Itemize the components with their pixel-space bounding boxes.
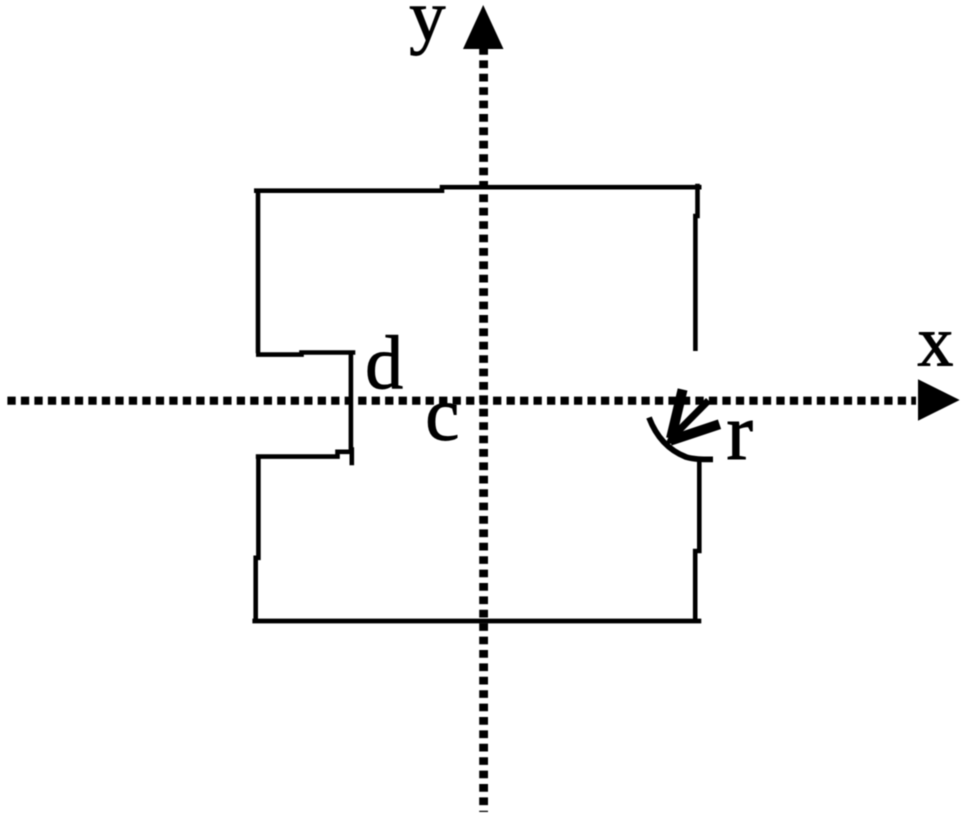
x-axis dashed line [7, 397, 916, 405]
notch vertical [349, 352, 354, 465]
svg-text:c: c [425, 370, 459, 456]
r-arrow shaft [677, 401, 709, 433]
square outline: right edge upper [695, 184, 697, 351]
arc of radius r [649, 418, 713, 460]
square outline: bottom edge [252, 619, 701, 624]
svg-text:d: d [365, 322, 403, 406]
svg-text:r: r [726, 389, 753, 477]
notch bottom horizontal [256, 452, 353, 457]
svg-text:y: y [409, 0, 445, 56]
square outline: top edge [254, 187, 702, 191]
r-arrow head [665, 423, 688, 446]
y-axis arrowhead [463, 5, 504, 49]
square outline: left edge lower [256, 455, 259, 622]
square outline: left edge upper [256, 189, 261, 354]
r-arrow barb right [670, 424, 720, 441]
square outline: right edge lower [695, 461, 699, 622]
notch top horizontal [256, 353, 355, 355]
r-arrow barb up [671, 390, 683, 439]
y-axis dashed line [479, 47, 488, 812]
x-axis arrowhead [918, 379, 960, 420]
svg-text:x: x [917, 301, 953, 381]
